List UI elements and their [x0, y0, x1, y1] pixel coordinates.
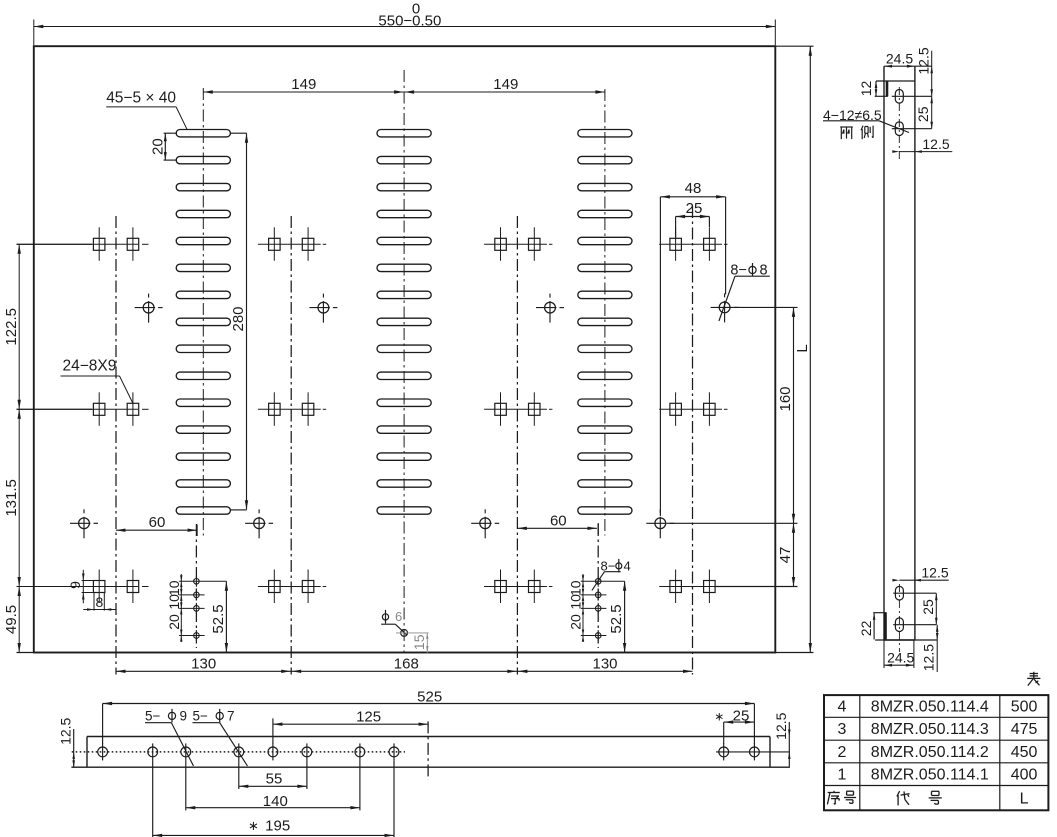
svg-text:3: 3: [837, 721, 846, 738]
svg-text:L: L: [794, 344, 811, 352]
svg-text:130: 130: [191, 655, 216, 672]
svg-text:47: 47: [777, 547, 794, 564]
svg-text:7: 7: [227, 708, 235, 723]
svg-text:400: 400: [1011, 767, 1038, 784]
svg-text:55: 55: [266, 770, 283, 787]
svg-text:0: 0: [412, 1, 420, 18]
svg-text:140: 140: [263, 793, 288, 810]
svg-text:12.5: 12.5: [773, 712, 789, 739]
svg-text:12.5: 12.5: [922, 136, 949, 152]
svg-text:2: 2: [837, 744, 846, 761]
svg-text:12.5: 12.5: [58, 717, 74, 744]
svg-text:5−: 5−: [145, 708, 161, 723]
svg-text:48: 48: [685, 180, 702, 197]
svg-text:149: 149: [291, 76, 316, 93]
svg-text:L: L: [1020, 790, 1029, 807]
svg-text:22: 22: [858, 620, 874, 636]
svg-text:168: 168: [394, 655, 419, 672]
svg-text:∗: ∗: [714, 709, 724, 723]
svg-text:12.5: 12.5: [916, 47, 932, 74]
svg-text:160: 160: [777, 386, 794, 411]
svg-text:9: 9: [67, 581, 83, 589]
svg-text:5−: 5−: [193, 708, 209, 723]
svg-text:60: 60: [550, 513, 567, 530]
svg-text:149: 149: [493, 76, 518, 93]
svg-text:10: 10: [568, 594, 584, 610]
svg-text:9: 9: [180, 708, 188, 723]
svg-text:525: 525: [417, 688, 442, 705]
svg-text:20: 20: [149, 138, 166, 155]
svg-text:45−5 × 40: 45−5 × 40: [106, 89, 176, 106]
svg-text:280: 280: [230, 306, 247, 331]
svg-text:52.5: 52.5: [608, 604, 625, 633]
svg-text:195: 195: [265, 818, 290, 835]
svg-text:122.5: 122.5: [3, 308, 20, 346]
svg-text:131.5: 131.5: [3, 479, 20, 517]
svg-text:12: 12: [858, 81, 874, 97]
svg-text:20: 20: [166, 614, 182, 630]
svg-text:49.5: 49.5: [3, 605, 20, 634]
svg-text:24.5: 24.5: [886, 51, 913, 67]
svg-text:8MZR.050.114.4: 8MZR.050.114.4: [871, 699, 989, 716]
svg-text:12.5: 12.5: [921, 644, 937, 671]
svg-text:25: 25: [733, 707, 750, 724]
svg-text:10: 10: [166, 594, 182, 610]
svg-text:8: 8: [96, 594, 104, 610]
svg-text:52.5: 52.5: [210, 604, 227, 633]
svg-text:8MZR.050.114.1: 8MZR.050.114.1: [871, 767, 989, 784]
svg-text:8MZR.050.114.3: 8MZR.050.114.3: [871, 721, 989, 738]
svg-text:125: 125: [356, 709, 381, 726]
svg-text:25: 25: [915, 106, 931, 122]
svg-text:25: 25: [920, 599, 936, 615]
svg-text:4: 4: [837, 699, 846, 716]
svg-text:6: 6: [395, 609, 402, 624]
svg-text:500: 500: [1011, 699, 1038, 716]
svg-text:8MZR.050.114.2: 8MZR.050.114.2: [871, 744, 989, 761]
svg-text:475: 475: [1011, 721, 1038, 738]
svg-text:15: 15: [411, 634, 427, 650]
svg-text:60: 60: [149, 514, 166, 531]
svg-text:4: 4: [624, 558, 631, 573]
svg-text:1: 1: [837, 767, 846, 784]
svg-text:∗: ∗: [248, 818, 259, 833]
svg-text:550−0.50: 550−0.50: [378, 12, 441, 29]
svg-text:450: 450: [1011, 744, 1038, 761]
svg-text:12.5: 12.5: [921, 565, 948, 581]
svg-text:130: 130: [592, 655, 617, 672]
svg-text:10: 10: [568, 580, 584, 596]
svg-text:20: 20: [568, 614, 584, 630]
svg-text:24−8X9: 24−8X9: [63, 358, 117, 375]
svg-text:25: 25: [686, 200, 703, 217]
svg-text:24.5: 24.5: [887, 649, 914, 665]
svg-text:10: 10: [166, 580, 182, 596]
